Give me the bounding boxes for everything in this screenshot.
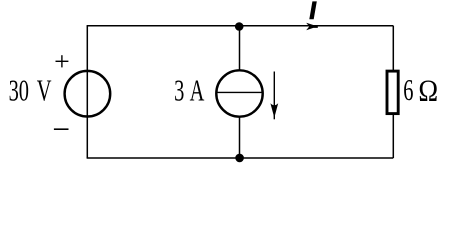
label I [309, 1, 317, 19]
minus terminal mark [54, 128, 69, 130]
svg-text:6: 6 [403, 73, 413, 107]
wire right branch bottom [392, 115, 394, 158]
wire right branch top [392, 26, 394, 70]
wire top [87, 25, 394, 27]
voltage source V1 circle [65, 71, 111, 117]
node junction bottom [235, 154, 244, 163]
wire bottom [87, 157, 394, 159]
wire middle branch top [239, 26, 241, 71]
current direction arrowhead [270, 103, 278, 117]
wire left [86, 26, 88, 158]
svg-text:3 A: 3 A [174, 73, 204, 107]
resistor R1 [387, 71, 398, 114]
wire middle branch bottom [239, 117, 241, 158]
current source I1 circle [216, 70, 262, 116]
current source bar [216, 91, 263, 93]
current direction arrow line [273, 72, 275, 120]
node junction top [235, 22, 244, 31]
branch current arrowhead on top wire [306, 23, 318, 31]
svg-text:30 V: 30 V [9, 73, 52, 107]
plus terminal mark [56, 55, 69, 67]
svg-text:Ω: Ω [418, 75, 438, 108]
